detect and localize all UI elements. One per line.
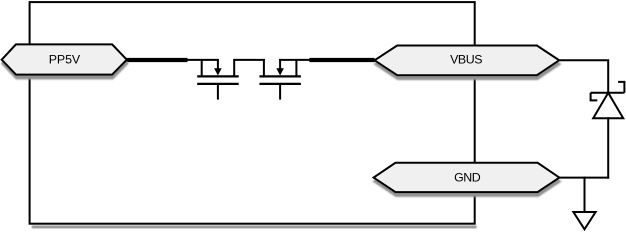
wire: zener D1 to GND net bbox=[607, 117, 609, 179]
wire: Q2 to VBUS (thick) bbox=[309, 58, 374, 62]
transistor Q1 bbox=[197, 59, 239, 100]
wire: thin into Q1 drain and body bbox=[186, 59, 219, 61]
node PP5V: port hexagon bbox=[2, 44, 127, 74]
wire loop: outer rectangle net bbox=[30, 2, 477, 228]
wire: stub to ground symbol bbox=[584, 177, 586, 213]
svg-text:GND: GND bbox=[454, 170, 481, 184]
wire: GND to zener bottom bbox=[559, 177, 609, 179]
wire: PP5V to Q1 (thick) bbox=[126, 58, 187, 62]
transistor Q2 bbox=[259, 59, 301, 100]
node GND: port hexagon bbox=[374, 163, 560, 192]
wire: Q2 body out bbox=[279, 59, 310, 61]
wire: VBUS to zener D1 bbox=[559, 60, 608, 93]
wire: Q1 to Q2 bbox=[233, 59, 264, 61]
svg-text:PP5V: PP5V bbox=[49, 52, 81, 66]
svg-text:VBUS: VBUS bbox=[450, 52, 482, 66]
ground bbox=[573, 212, 595, 229]
node VBUS: port hexagon bbox=[375, 46, 560, 76]
zener diode D1 bbox=[591, 82, 625, 118]
